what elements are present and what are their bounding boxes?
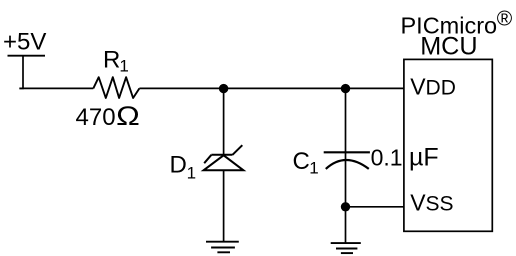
ground (below C1) bbox=[331, 243, 361, 253]
node junction dot at D1 branch bbox=[219, 84, 228, 93]
wire from C1 bottom plate down to VSS junction bbox=[345, 161, 347, 207]
svg-text:VDD: VDD bbox=[410, 73, 456, 99]
node junction dot at C1 branch bbox=[341, 84, 350, 93]
capacitor C1 bbox=[324, 152, 370, 169]
wire from junction down to ground bbox=[345, 207, 347, 244]
svg-text:1: 1 bbox=[309, 159, 318, 178]
svg-text:VSS: VSS bbox=[410, 189, 453, 215]
diode D1 (zener) bbox=[204, 145, 244, 170]
svg-text:+5V: +5V bbox=[3, 28, 46, 55]
svg-text:®: ® bbox=[497, 8, 513, 31]
svg-text:0.1: 0.1 bbox=[371, 145, 403, 171]
resistor R1 bbox=[93, 77, 139, 98]
svg-text:Ω: Ω bbox=[116, 101, 140, 131]
svg-text:R: R bbox=[103, 47, 120, 74]
svg-text:1: 1 bbox=[119, 57, 128, 76]
power +5V terminal bar bbox=[8, 55, 46, 57]
wire from junction down to D1 cathode bbox=[223, 88, 225, 154]
node junction dot at VSS bbox=[341, 202, 350, 211]
svg-text:470: 470 bbox=[76, 104, 116, 131]
svg-text:1: 1 bbox=[187, 164, 196, 183]
wire from D1 anode to ground bbox=[223, 170, 225, 241]
wire from junction to VSS pin of U1 bbox=[346, 206, 404, 208]
wire from R1 to VDD pin bbox=[139, 87, 404, 89]
svg-text:C: C bbox=[293, 148, 310, 175]
svg-text:µF: µF bbox=[409, 144, 439, 172]
svg-text:MCU: MCU bbox=[420, 33, 477, 61]
ground (below D1) bbox=[206, 242, 239, 253]
IC U1 PICmicro MCU box outline bbox=[404, 59, 492, 231]
svg-text:D: D bbox=[170, 152, 187, 179]
wire from +5V down and right to R1 bbox=[19, 56, 23, 89]
wire from junction down to C1 top plate bbox=[345, 88, 347, 159]
